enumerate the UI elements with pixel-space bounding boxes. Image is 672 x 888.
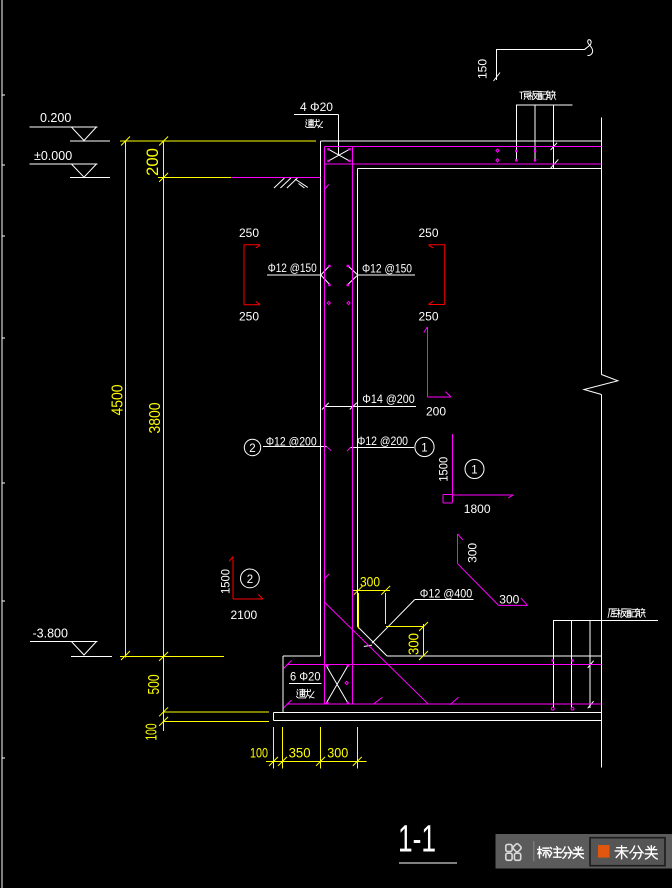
svg-text:250: 250 bbox=[239, 310, 259, 324]
svg-text:2100: 2100 bbox=[231, 608, 258, 622]
svg-text:250: 250 bbox=[419, 310, 439, 324]
svg-text:Φ12 @400: Φ12 @400 bbox=[420, 587, 473, 601]
svg-text:2: 2 bbox=[247, 574, 253, 586]
svg-text:100: 100 bbox=[250, 745, 268, 761]
svg-text:Φ12 @150: Φ12 @150 bbox=[268, 261, 317, 275]
svg-text:300: 300 bbox=[360, 574, 380, 590]
svg-text:1: 1 bbox=[471, 465, 477, 477]
svg-text:1800: 1800 bbox=[464, 502, 491, 516]
svg-text:200: 200 bbox=[144, 148, 162, 176]
svg-text:3800: 3800 bbox=[147, 402, 164, 433]
svg-text:300: 300 bbox=[465, 543, 479, 563]
svg-text:-3.800: -3.800 bbox=[33, 627, 68, 641]
svg-text:300: 300 bbox=[327, 745, 348, 761]
svg-text:2: 2 bbox=[249, 443, 255, 455]
svg-text:1: 1 bbox=[421, 443, 427, 455]
svg-text:Φ12 @200: Φ12 @200 bbox=[357, 434, 408, 448]
svg-text:250: 250 bbox=[239, 226, 259, 240]
svg-text:Φ12 @150: Φ12 @150 bbox=[362, 262, 412, 276]
svg-text:6 Φ20: 6 Φ20 bbox=[290, 670, 321, 684]
svg-text:250: 250 bbox=[419, 226, 439, 240]
svg-text:±0.000: ±0.000 bbox=[34, 149, 72, 163]
svg-text:4 Φ20: 4 Φ20 bbox=[300, 100, 333, 114]
svg-text:1500: 1500 bbox=[218, 569, 232, 594]
svg-text:300: 300 bbox=[407, 633, 423, 655]
svg-text:4500: 4500 bbox=[110, 384, 127, 415]
svg-text:100: 100 bbox=[144, 723, 161, 740]
svg-text:200: 200 bbox=[426, 405, 446, 419]
svg-text:Φ14 @200: Φ14 @200 bbox=[362, 392, 415, 406]
svg-text:500: 500 bbox=[146, 674, 163, 694]
svg-text:1500: 1500 bbox=[437, 456, 451, 481]
svg-text:0.200: 0.200 bbox=[40, 111, 71, 125]
svg-text:300: 300 bbox=[499, 593, 519, 607]
svg-text:Φ12 @200: Φ12 @200 bbox=[266, 435, 317, 449]
svg-text:1-1: 1-1 bbox=[398, 819, 436, 861]
svg-text:350: 350 bbox=[289, 745, 311, 761]
svg-text:150: 150 bbox=[476, 59, 490, 79]
